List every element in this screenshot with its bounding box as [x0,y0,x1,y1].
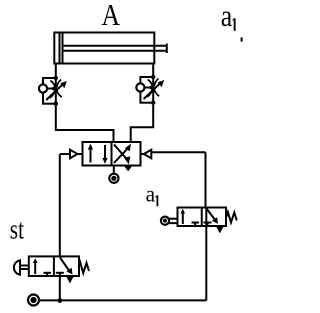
a1 right box diagonal to exhaust [207,209,218,224]
svg-text:a: a [221,0,233,33]
valve U1 5/2 impulse valve body [83,142,141,166]
st spring [79,262,90,273]
label a1 valve [146,181,159,206]
U1 right pilot [141,150,206,159]
a1 left box up arrow [181,209,186,224]
U1 pressure source circle [109,166,118,183]
st push button actuator [14,260,29,274]
svg-text:A: A [102,0,121,32]
st left box up arrow [33,258,38,274]
wire cylinder right port down [152,64,154,78]
wire right pilot to a1 valve [205,152,207,207]
a1 spring [226,212,237,223]
junction dot bottom [57,298,62,303]
svg-text:st: st [10,214,24,245]
a1 right box blocked port T [204,223,212,227]
wire V1 to valve port A [56,104,114,142]
a1 roller actuator [161,217,178,225]
svg-text:a: a [146,181,156,206]
st right box diagonal to exhaust [60,258,73,275]
flow control valve V1 [39,76,67,106]
cylinder A [54,33,167,64]
bottom source circle [28,295,39,306]
wire V2 to valve port B [131,103,154,142]
a1 exhaust triangle [216,227,223,234]
a1 left box blocked port T [192,223,200,227]
valve a1 3/2 roller valve body [178,208,227,227]
flow control valve V2 [136,75,164,105]
valve st 3/2 push button body [29,256,79,276]
wire cylinder left port down [55,64,57,79]
st right box blocked port T [56,273,64,276]
label a1 top right [221,0,243,42]
U1 right box crossed arrows [114,144,131,165]
wire left pilot to st valve [59,154,61,256]
bottom supply line [39,299,206,301]
U1 left box arrows [88,144,108,164]
wire a1 valve supply down [205,208,207,227]
U1 exhaust triangle [124,166,133,172]
wire st valve supply down [59,276,61,301]
st exhaust triangle [66,277,73,284]
st left box blocked port T [44,273,52,276]
U1 left pilot [60,150,83,159]
